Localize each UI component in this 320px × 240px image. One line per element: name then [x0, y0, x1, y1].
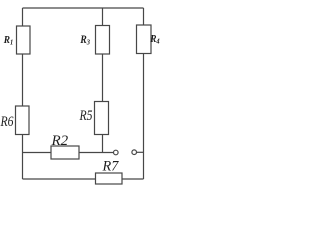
resistor R4: [137, 25, 152, 54]
svg-text:R6: R6: [0, 113, 14, 130]
svg-text:R2: R2: [51, 133, 69, 149]
resistor R7: [96, 173, 123, 184]
resistor R1: [17, 26, 31, 54]
wire right vertical branch: [143, 8, 145, 179]
svg-text:R3: R3: [79, 34, 90, 47]
resistor R3: [96, 26, 110, 55]
node terminal a: [114, 150, 119, 155]
resistor R6: [16, 106, 30, 135]
svg-text:R1: R1: [3, 35, 13, 47]
wire R2 row to terminal a: [23, 152, 114, 154]
wire bottom bus: [23, 178, 144, 180]
svg-text:R4: R4: [149, 34, 160, 46]
wire left vertical branch: [22, 8, 24, 179]
svg-text:R7: R7: [102, 158, 119, 174]
wire top bus: [23, 7, 144, 9]
svg-text:R5: R5: [79, 107, 93, 124]
resistor R5: [95, 102, 109, 135]
wire middle vertical branch: [102, 8, 104, 153]
wire terminal b to right branch: [137, 151, 144, 153]
node terminal b: [132, 150, 137, 155]
resistor R2: [51, 146, 79, 159]
